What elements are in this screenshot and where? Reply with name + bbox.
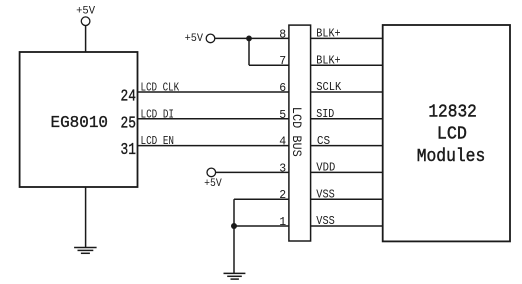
- svg-text:4: 4: [279, 136, 286, 149]
- svg-text:+5V: +5V: [204, 178, 222, 190]
- svg-text:VSS: VSS: [316, 215, 335, 228]
- svg-text:8: 8: [279, 28, 286, 41]
- svg-text:LCD EN: LCD EN: [141, 135, 175, 148]
- svg-text:1: 1: [279, 216, 286, 229]
- svg-text:5: 5: [279, 109, 286, 122]
- svg-text:LCD BUS: LCD BUS: [289, 107, 304, 157]
- svg-text:BLK+: BLK+: [316, 55, 340, 68]
- svg-text:7: 7: [279, 55, 286, 68]
- svg-text:LCD DI: LCD DI: [141, 108, 175, 121]
- svg-text:2: 2: [279, 189, 286, 202]
- svg-text:EG8010: EG8010: [51, 114, 109, 133]
- svg-text:SCLK: SCLK: [316, 81, 341, 94]
- svg-text:24: 24: [121, 88, 136, 107]
- svg-text:12832: 12832: [428, 103, 477, 123]
- svg-text:SID: SID: [316, 108, 334, 121]
- svg-text:LCD: LCD: [437, 125, 467, 145]
- svg-text:VSS: VSS: [316, 188, 335, 201]
- svg-text:6: 6: [279, 82, 286, 95]
- svg-text:25: 25: [121, 114, 136, 133]
- svg-text:VDD: VDD: [316, 162, 335, 175]
- svg-text:+5V: +5V: [185, 33, 204, 45]
- svg-text:+5V: +5V: [76, 6, 95, 18]
- svg-text:CS: CS: [317, 135, 330, 148]
- svg-text:3: 3: [279, 162, 286, 175]
- svg-text:Modules: Modules: [417, 147, 486, 167]
- svg-text:LCD CLK: LCD CLK: [141, 82, 180, 95]
- svg-text:31: 31: [121, 141, 136, 160]
- svg-text:BLK+: BLK+: [316, 28, 340, 41]
